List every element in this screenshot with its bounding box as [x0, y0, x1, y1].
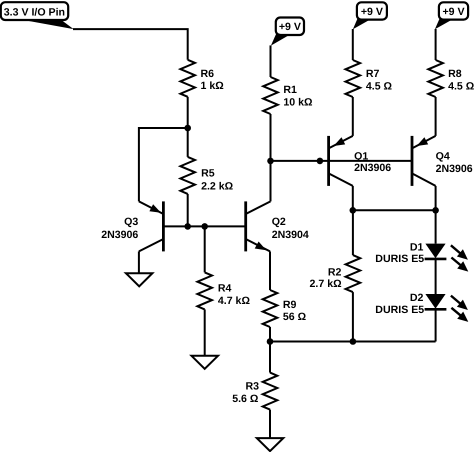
- ground under Q3: [126, 273, 152, 286]
- wire D1 cathode to D2 anode: [435, 259, 437, 294]
- svg-text:R7: R7: [366, 68, 380, 80]
- transistor Q2: [246, 201, 309, 251]
- resistor R3: [263, 373, 278, 410]
- wire base Q3 to Q2: [163, 225, 245, 227]
- wire Q4 collector down: [435, 186, 437, 210]
- node A junction dot: [184, 125, 191, 132]
- svg-text:R4: R4: [218, 283, 232, 295]
- svg-text:Q4: Q4: [436, 151, 450, 163]
- svg-text:2.2 kΩ: 2.2 kΩ: [201, 180, 234, 192]
- svg-text:Q2: Q2: [272, 216, 286, 228]
- wire collector rail Q1 to Q4: [353, 209, 436, 211]
- wire base rail node B to Q4: [271, 160, 413, 162]
- wire rail down to D1 anode: [435, 210, 437, 243]
- wire R9 bottom to node C: [269, 327, 271, 342]
- wire R4 bottom to ground: [204, 309, 206, 355]
- wire R1 bottom to node B: [270, 114, 272, 161]
- svg-text:R1: R1: [283, 84, 297, 96]
- resistor R7: [346, 60, 361, 97]
- supply label +9 V for R1: [271, 18, 304, 46]
- transistor Q3: [101, 201, 163, 251]
- svg-text:2N3906: 2N3906: [436, 163, 473, 175]
- svg-text:4.7 kΩ: 4.7 kΩ: [218, 295, 251, 307]
- svg-text:10 kΩ: 10 kΩ: [283, 96, 313, 108]
- svg-text:+9 V: +9 V: [442, 6, 464, 18]
- resistor R5: [180, 157, 195, 194]
- wire R8 bottom to Q4 emitter: [435, 97, 437, 136]
- resistor R4: [197, 272, 212, 309]
- svg-text:R6: R6: [201, 68, 215, 80]
- wire Q1 collector down: [352, 186, 354, 210]
- wire Q3 collector down: [138, 251, 140, 273]
- node junction dot Q1 collector: [350, 207, 357, 214]
- wire R2 bottom to bottom rail: [352, 292, 354, 341]
- svg-text:5.6 Ω: 5.6 Ω: [232, 393, 259, 405]
- wire +9V to R8: [435, 29, 437, 60]
- wire node A down to R5: [187, 128, 189, 157]
- LED D2: [375, 292, 468, 322]
- svg-text:DURIS E5: DURIS E5: [375, 253, 424, 265]
- svg-text:DURIS E5: DURIS E5: [375, 304, 424, 316]
- ground under R4: [192, 356, 219, 369]
- svg-text:+9 V: +9 V: [279, 21, 301, 33]
- wire base node down to R4: [204, 226, 206, 272]
- transistor Q1: [329, 136, 392, 186]
- node junction dot Q1 base: [317, 158, 324, 165]
- svg-text:R3: R3: [245, 381, 259, 393]
- svg-text:R2: R2: [328, 267, 342, 279]
- resistor R8: [428, 60, 443, 97]
- wire bottom rail: [270, 341, 436, 343]
- resistor R1: [263, 77, 278, 114]
- wire rail down to R2: [352, 210, 354, 255]
- svg-text:2N3906: 2N3906: [354, 162, 391, 174]
- wire top horizontal from IO pin to R6: [73, 29, 188, 60]
- LED D1: [375, 242, 468, 272]
- node junction dot R4/base: [201, 223, 208, 230]
- wire Q2 emitter down to R9: [269, 251, 271, 290]
- svg-text:R5: R5: [201, 167, 215, 179]
- svg-text:56 Ω: 56 Ω: [283, 311, 307, 323]
- svg-text:R9: R9: [283, 299, 297, 311]
- label box 3.3 V I/O Pin: [1, 2, 74, 29]
- ground under R3: [257, 438, 284, 451]
- svg-text:1 kΩ: 1 kΩ: [201, 80, 225, 92]
- svg-text:Q3: Q3: [124, 216, 138, 228]
- supply label +9 V for R8: [435, 2, 468, 29]
- resistor R9: [263, 290, 278, 327]
- node B junction dot: [267, 158, 274, 165]
- resistor R2: [346, 255, 361, 292]
- svg-text:4.5 Ω: 4.5 Ω: [366, 80, 393, 92]
- node junction dot Q4 collector: [432, 207, 439, 214]
- wire R3 bottom to ground: [269, 410, 271, 439]
- wire +9V to R1: [270, 45, 272, 77]
- svg-text:D1: D1: [410, 242, 424, 254]
- svg-text:R8: R8: [448, 68, 462, 80]
- transistor Q4: [412, 136, 473, 186]
- resistor R6: [180, 60, 195, 97]
- svg-text:D2: D2: [410, 292, 424, 304]
- wire node C down to R3: [269, 342, 271, 373]
- svg-text:2N3904: 2N3904: [272, 229, 309, 241]
- node C junction dot: [267, 338, 274, 345]
- wire Q2 collector up to node B: [270, 161, 272, 202]
- svg-text:2.7 kΩ: 2.7 kΩ: [310, 278, 343, 290]
- svg-text:Q1: Q1: [354, 151, 368, 163]
- svg-text:4.5 Ω: 4.5 Ω: [448, 80, 474, 92]
- supply label +9 V for R7: [353, 2, 387, 29]
- wire node A left and down to Q3 emitter: [139, 128, 188, 201]
- svg-text:+9 V: +9 V: [361, 6, 383, 18]
- svg-text:3.3 V I/O Pin: 3.3 V I/O Pin: [4, 6, 65, 18]
- node junction dot R5/base: [184, 223, 191, 230]
- node junction dot R2 bottom: [350, 338, 357, 345]
- wire R5 bottom to base node: [187, 194, 189, 227]
- svg-text:2N3906: 2N3906: [101, 229, 138, 241]
- wire R7 bottom to Q1 emitter: [352, 97, 354, 136]
- wire +9V to R7: [352, 29, 354, 60]
- wire D2 cathode down to bottom rail: [435, 309, 437, 341]
- wire R6 bottom to node A: [187, 97, 189, 128]
